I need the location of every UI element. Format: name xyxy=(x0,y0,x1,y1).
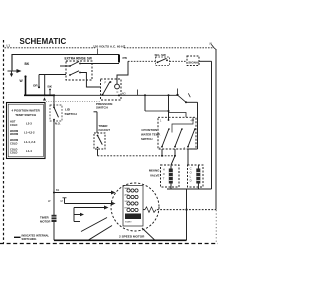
svg-text:F: F xyxy=(105,80,107,84)
svg-text:HIGH: HIGH xyxy=(125,207,131,209)
svg-text:COLD: COLD xyxy=(10,123,17,127)
svg-text:INDICATES INTERNAL: INDICATES INTERNAL xyxy=(22,233,50,237)
svg-text:N: N xyxy=(210,42,213,46)
svg-text:O: O xyxy=(190,170,192,174)
svg-text:WARM: WARM xyxy=(10,132,18,136)
svg-text:SWITCHING: SWITCHING xyxy=(22,237,37,241)
svg-text:SCHEMATIC: SCHEMATIC xyxy=(20,37,67,46)
svg-text:COLD: COLD xyxy=(10,141,17,145)
svg-text:2 SPEED MOTOR: 2 SPEED MOTOR xyxy=(119,234,145,238)
svg-text:COLD: COLD xyxy=(10,151,17,155)
svg-text:B2: B2 xyxy=(56,188,60,192)
svg-text:D: D xyxy=(190,179,192,183)
svg-text:MIXING: MIXING xyxy=(149,169,160,173)
svg-text:L1-4, 2-3: L1-4, 2-3 xyxy=(24,140,36,144)
svg-text:NO: NO xyxy=(122,92,126,96)
svg-text:MAIN: MAIN xyxy=(125,187,131,190)
svg-text:L1: L1 xyxy=(7,44,11,48)
svg-text:TEMP SWITCH: TEMP SWITCH xyxy=(15,113,36,117)
svg-text:L2-3: L2-3 xyxy=(26,121,32,125)
svg-text:OR: OR xyxy=(33,83,38,87)
svg-text:AGIT: AGIT xyxy=(125,193,131,196)
svg-text:N.O.: N.O. xyxy=(55,122,61,126)
svg-text:SIG. SW: SIG. SW xyxy=(155,53,167,57)
svg-text:120 VOLTS A.C. 60 HZ: 120 VOLTS A.C. 60 HZ xyxy=(93,45,125,49)
svg-text:EXTRA RINSE SW: EXTRA RINSE SW xyxy=(65,57,92,61)
svg-text:PB: PB xyxy=(123,56,128,60)
svg-text:4 POSITION WATER: 4 POSITION WATER xyxy=(12,108,41,112)
svg-text:C: C xyxy=(190,166,192,170)
svg-text:H: H xyxy=(163,168,165,172)
svg-text:LID: LID xyxy=(65,107,71,111)
svg-text:BK: BK xyxy=(48,85,53,89)
svg-text:SWITCH: SWITCH xyxy=(65,112,78,116)
svg-text:BK: BK xyxy=(25,62,30,66)
svg-text:SPIN: SPIN xyxy=(125,201,130,203)
svg-text:START: START xyxy=(125,221,132,224)
svg-text:L1-4,3-2: L1-4,3-2 xyxy=(24,131,35,135)
svg-text:SIGNAL: SIGNAL xyxy=(188,61,200,65)
svg-text:SWITCH: SWITCH xyxy=(141,137,152,141)
svg-text:O: O xyxy=(163,172,165,176)
svg-text:FAUCET: FAUCET xyxy=(99,128,111,132)
svg-text:M: M xyxy=(61,199,63,203)
svg-text:VALVE: VALVE xyxy=(150,173,160,177)
svg-text:C: C xyxy=(117,90,119,94)
svg-text:L1-4: L1-4 xyxy=(26,149,32,153)
svg-text:MOTOR: MOTOR xyxy=(40,219,50,223)
svg-text:SWITCH: SWITCH xyxy=(96,105,108,109)
